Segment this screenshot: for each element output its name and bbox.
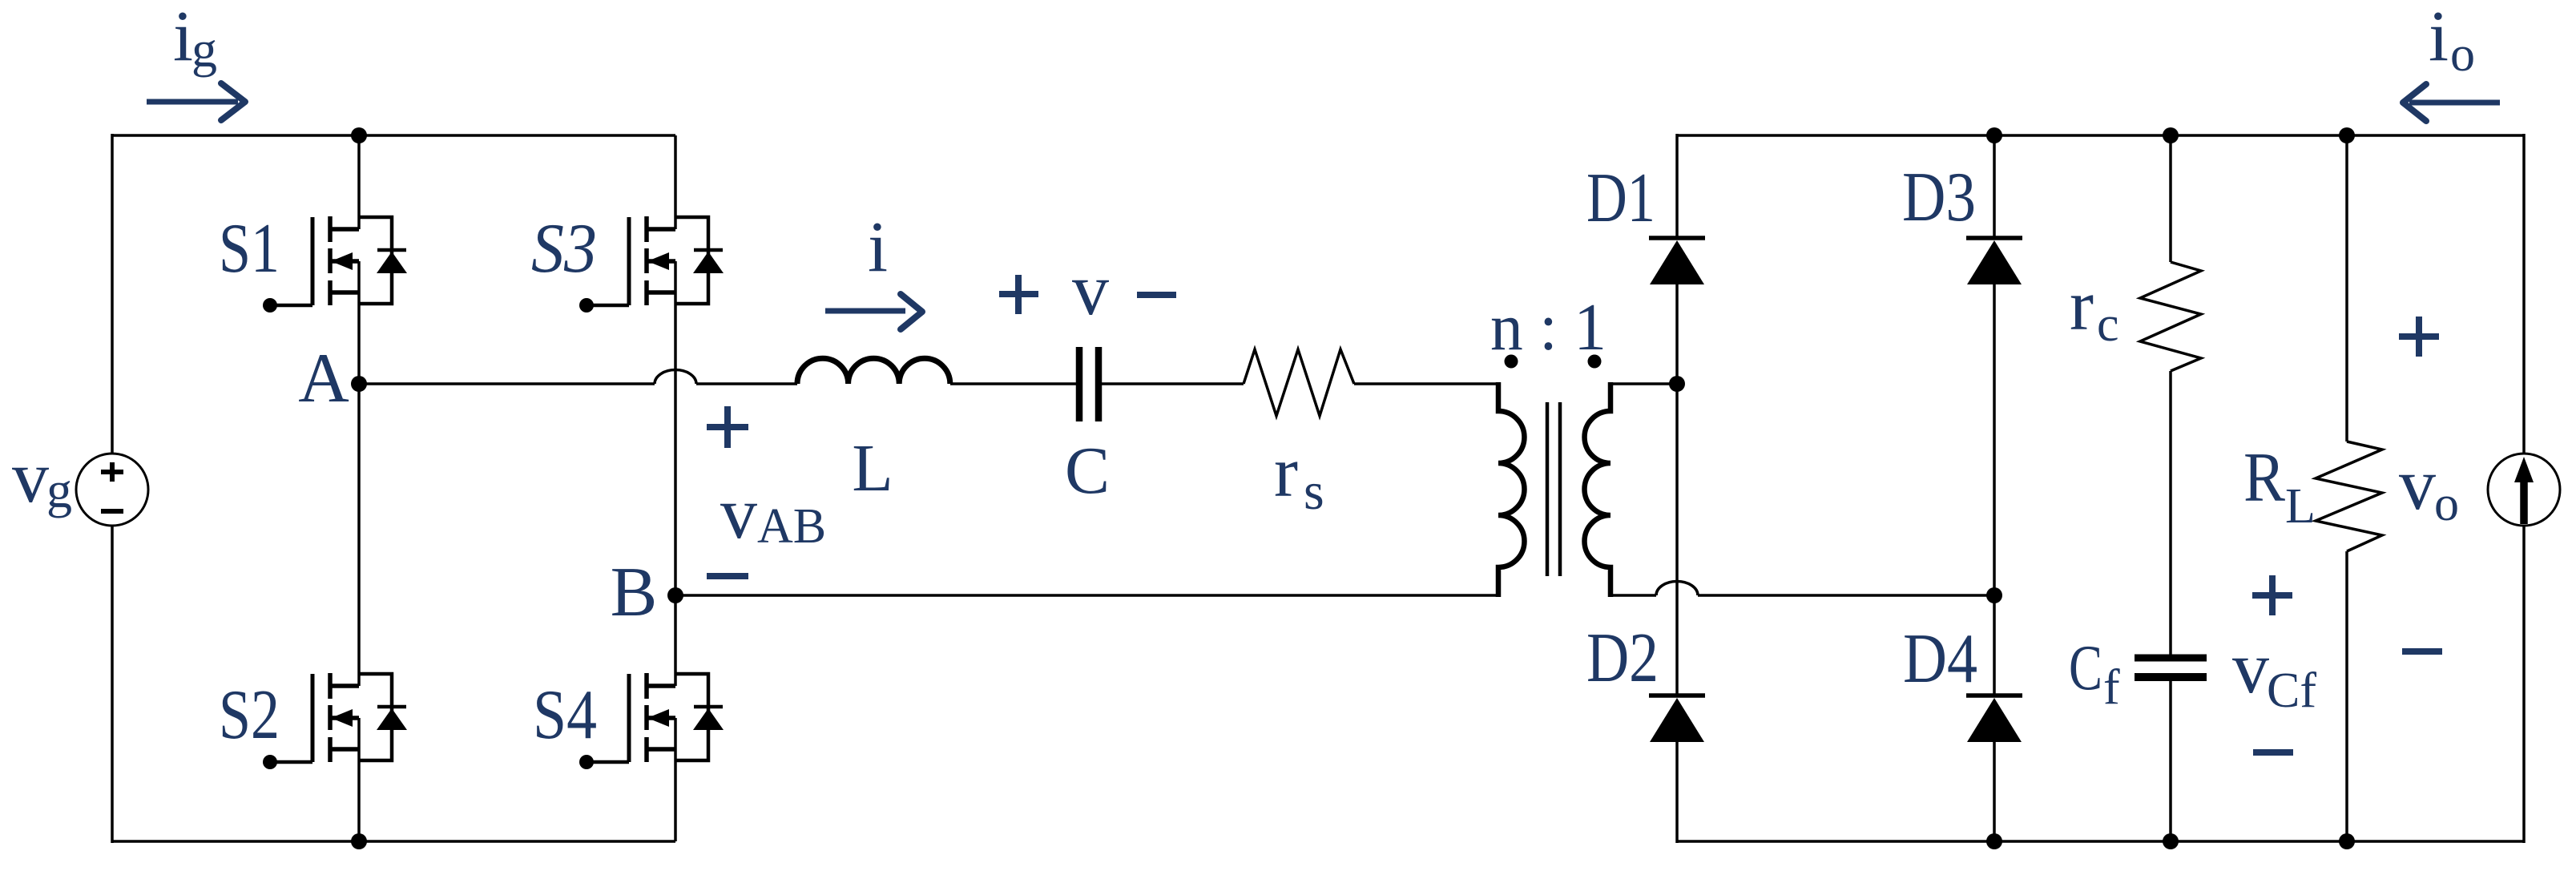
diode D2 [1649, 696, 1705, 742]
wire S2 leg upper [357, 384, 361, 686]
node D4 bottom junction [1986, 833, 2002, 849]
wire left top rail [112, 134, 675, 137]
svg-text:A: A [298, 340, 349, 417]
transformer dot primary [1505, 355, 1518, 369]
arrow i [825, 294, 922, 329]
wire node A to hop [359, 382, 655, 385]
wire node to D2 [1675, 384, 1679, 696]
label vAB minus [707, 573, 748, 579]
svg-text:o: o [2450, 27, 2475, 82]
wire right leg upper [2522, 134, 2526, 454]
label vCf plus [2252, 575, 2292, 615]
resistor rc [2140, 262, 2201, 371]
wire secondary bottom [1611, 594, 1656, 597]
node top-left junction [351, 127, 367, 143]
svg-text:S2: S2 [219, 676, 280, 754]
label vo plus [2399, 317, 2439, 357]
wire hop over S3 leg [655, 370, 696, 384]
svg-text:D4: D4 [1903, 620, 1977, 698]
wire hop over D leg [1656, 582, 1698, 596]
wire capacitor to resistor [1102, 382, 1244, 385]
wire D1 leg upper [1675, 134, 1679, 238]
wire inductor to capacitor [950, 382, 1076, 385]
svg-text:f: f [2103, 660, 2120, 715]
svg-text:v: v [12, 436, 49, 518]
label vCf minus [2253, 749, 2293, 756]
wire S1 leg upper [357, 135, 361, 229]
label rc [2070, 266, 2119, 352]
wire D3 to node [1993, 284, 1996, 595]
diode D1 [1649, 238, 1705, 284]
label v minus [1137, 292, 1176, 298]
svg-text:v: v [2232, 627, 2269, 708]
wire left leg upper [111, 134, 114, 454]
node RL top junction [2339, 127, 2355, 143]
svg-text:C: C [1065, 433, 1110, 508]
wire RL leg lower [2345, 551, 2348, 841]
wire hop to inductor [696, 382, 797, 385]
wire rc leg upper [2169, 135, 2172, 262]
transistor S2 [263, 673, 407, 769]
svg-text:D3: D3 [1902, 159, 1976, 236]
svg-text:i: i [173, 0, 193, 76]
wire top rail right [1677, 134, 2524, 137]
diode D3 [1966, 238, 2022, 284]
wire S2 leg lower [357, 718, 361, 841]
svg-text:S4: S4 [533, 676, 597, 754]
label rs [1274, 433, 1324, 521]
wire S3 leg lower [674, 261, 677, 595]
svg-text:D2: D2 [1586, 619, 1659, 697]
wire D1 to node [1675, 284, 1679, 384]
svg-text:c: c [2097, 297, 2119, 352]
transistor S1 [263, 216, 407, 313]
wire secondary top [1611, 382, 1677, 385]
wire D3 leg upper [1993, 135, 1996, 238]
svg-text:r: r [2070, 266, 2094, 345]
inductor L [797, 358, 950, 384]
wire S1 leg lower [357, 261, 361, 384]
wire left leg lower [111, 526, 114, 843]
wire node to D4 [1993, 595, 1996, 696]
node secondary top junction [1669, 376, 1685, 392]
transformer primary winding [1498, 382, 1525, 597]
resistor rs [1244, 349, 1354, 416]
svg-text:B: B [611, 554, 658, 631]
wire bottom rail right [1677, 840, 2524, 843]
wire Cf leg lower [2169, 680, 2172, 841]
capacitor Cf [2135, 658, 2207, 677]
current source io [2488, 454, 2560, 526]
svg-text:R: R [2243, 439, 2285, 517]
wire left bottom rail [112, 840, 675, 843]
svg-text:r: r [1274, 433, 1298, 512]
svg-text:v: v [720, 472, 757, 554]
node bottom-left junction [351, 833, 367, 849]
svg-text:i: i [2429, 0, 2449, 76]
wire B row [675, 594, 1498, 597]
wire rc to Cf [2169, 371, 2172, 655]
wire hop to D4 leg [1698, 594, 1994, 597]
arrow io [2403, 84, 2500, 121]
wire S4 leg lower [674, 718, 677, 841]
svg-text:n : 1: n : 1 [1490, 290, 1606, 365]
svg-text:S3: S3 [531, 210, 597, 288]
wire S4 leg upper [674, 595, 677, 686]
node Cf bottom junction [2163, 833, 2179, 849]
svg-text:L: L [2285, 479, 2316, 534]
label vo [2399, 443, 2459, 531]
svg-text:v: v [1072, 248, 1109, 330]
wire D2 leg lower [1675, 742, 1679, 843]
transistor S3 [579, 216, 724, 313]
svg-text:g: g [191, 21, 217, 78]
wire RL leg upper [2345, 135, 2348, 442]
svg-text:Cf: Cf [2267, 663, 2316, 718]
diode D4 [1966, 696, 2022, 742]
node rc top junction [2163, 127, 2179, 143]
label vAB [720, 472, 826, 554]
svg-text:AB: AB [757, 499, 826, 554]
node B [667, 587, 683, 603]
svg-text:i: i [868, 208, 888, 287]
node RL bottom junction [2339, 833, 2355, 849]
wire S3 leg upper [674, 135, 677, 229]
node D3 D4 junction [1986, 587, 2002, 603]
svg-text:C: C [2069, 633, 2102, 704]
transformer dot secondary [1588, 355, 1602, 369]
svg-text:v: v [2399, 443, 2436, 525]
label RL [2243, 439, 2316, 534]
label vo minus [2402, 648, 2442, 655]
resistor RL [2316, 442, 2382, 551]
transistor S4 [579, 673, 724, 769]
wire right leg lower [2522, 525, 2526, 843]
node D3 top junction [1986, 127, 2002, 143]
svg-text:g: g [46, 462, 72, 518]
voltage source vg [76, 454, 148, 526]
label io [2429, 0, 2475, 82]
transformer core [1547, 402, 1560, 576]
label vAB plus [707, 406, 748, 448]
svg-text:S1: S1 [219, 210, 280, 288]
svg-text:L: L [852, 431, 893, 506]
arrow ig [147, 83, 245, 120]
label v plus [999, 275, 1038, 314]
transformer secondary winding [1585, 382, 1611, 597]
capacitor C [1079, 347, 1099, 421]
svg-text:D1: D1 [1586, 159, 1655, 237]
wire resistor to transformer [1354, 382, 1498, 385]
label vg [12, 436, 72, 518]
node A [351, 376, 367, 392]
label Cf [2069, 633, 2120, 715]
svg-text:s: s [1304, 462, 1324, 521]
wire D4 leg lower [1993, 742, 1996, 841]
label ig [173, 0, 217, 78]
label vCf [2232, 627, 2316, 718]
svg-text:o: o [2434, 477, 2459, 531]
